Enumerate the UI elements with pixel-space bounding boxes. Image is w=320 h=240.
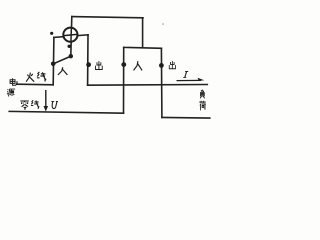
node: terminal 出(2) — [86, 62, 91, 67]
arrow I: load current indicator — [177, 78, 205, 81]
wire: neutral line 零线 from source — [9, 111, 123, 113]
node: junction dot near current-coil corner — [50, 32, 53, 35]
wire: neutral bridge between terminals 入(3) and 出(4) — [124, 46, 162, 49]
wire: left vertical from current coil down to 火线 — [52, 37, 55, 84]
wire: tee drop from top wire to neutral bridge — [142, 18, 144, 48]
wire: live line 火线 from source — [17, 83, 53, 86]
speckle (scan artifact) — [162, 23, 164, 25]
node: terminal 入(3) — [121, 62, 126, 67]
node: terminal 出(4) — [159, 63, 164, 68]
wire: current-coil path through meter circle — [54, 35, 88, 38]
wire: live line to load — [88, 84, 208, 87]
arrow U: supply voltage indicator — [44, 90, 49, 112]
label: 入 terminal 1 — [58, 67, 67, 75]
label: 线 (of 火线 live wire) — [37, 72, 46, 81]
label: 负 (of 负荷 load) — [200, 90, 205, 99]
label: 电 (of 电源 source) — [10, 78, 16, 85]
label: 源 (of 电源 source) — [7, 89, 15, 96]
label: U supply voltage — [51, 101, 58, 108]
circuit schematic: single-phase watt-hour meter wiring diagram — [0, 0, 215, 147]
label: 零 (of 零线 neutral wire) — [20, 101, 28, 110]
label: 线 (of 零线 neutral wire) — [31, 100, 39, 108]
wire: load-side neutral — [162, 116, 210, 119]
label: 出 terminal 2 — [96, 61, 103, 69]
wire: vertical from bridge through terminal 出(4) down to load neutral — [160, 48, 163, 117]
wire: vertical from bridge through terminal 入(3) down to neutral — [123, 47, 125, 113]
wire: top voltage-coil wire — [72, 17, 143, 18]
node: voltage-coil contact dot — [68, 45, 71, 48]
wire: voltage link from terminal 入(1) to coil stem — [53, 56, 71, 64]
label: 入 terminal 3 — [134, 61, 143, 70]
wire: vertical from current coil down through terminal 出(2) — [87, 35, 89, 85]
label: 荷 (of 负荷 load) — [199, 101, 205, 111]
meter M (watt-hour meter element) — [63, 28, 77, 42]
label: I load current — [183, 72, 188, 78]
wire: voltage-coil stem through meter circle — [71, 17, 72, 57]
label: 出 terminal 4 — [169, 61, 175, 69]
node: link pivot dot — [69, 54, 73, 58]
node: terminal 入(1) — [51, 62, 56, 67]
label: 火 (of 火线 live wire) — [26, 73, 34, 82]
